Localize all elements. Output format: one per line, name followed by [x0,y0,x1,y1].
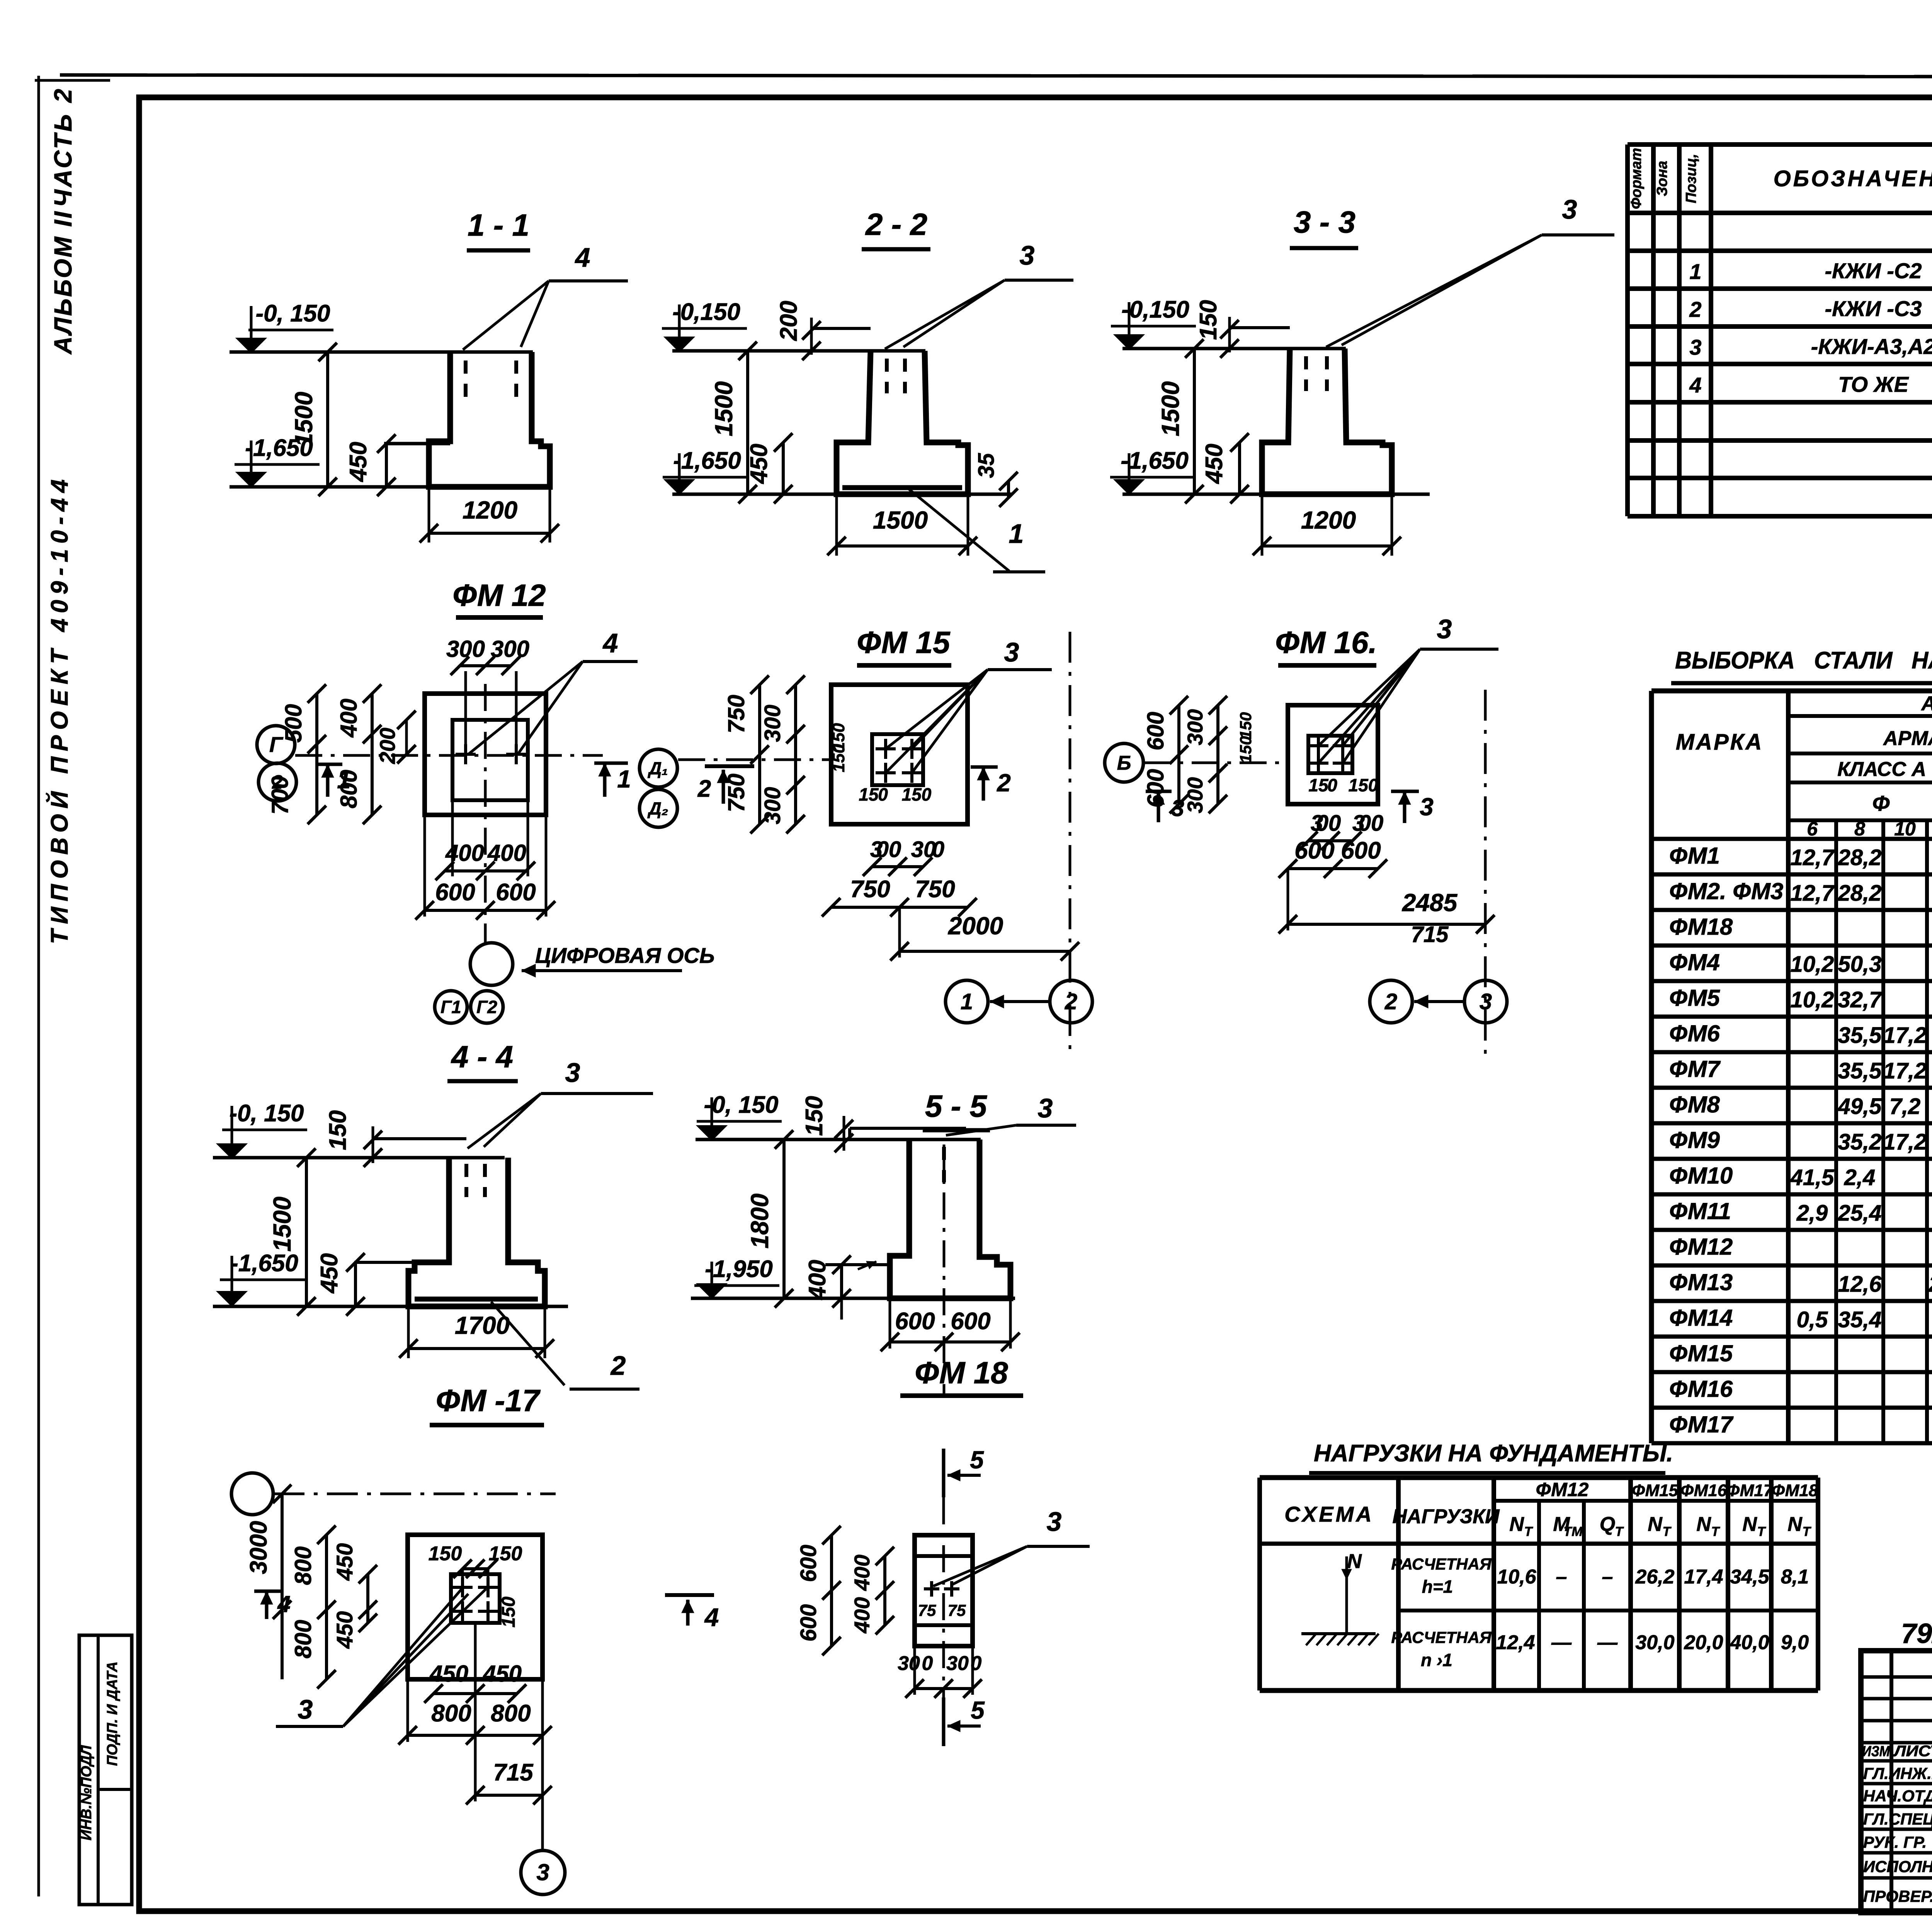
svg-text:ФМ5: ФМ5 [1669,985,1721,1011]
svg-text:1800: 1800 [746,1194,774,1248]
svg-text:ЧАСТЬ 2: ЧАСТЬ 2 [49,87,77,207]
svg-text:150: 150 [325,1110,351,1150]
svg-text:450: 450 [429,1661,468,1687]
svg-text:СХЕМА: СХЕМА [1284,1502,1374,1526]
section 1-1 ground line top [230,350,533,354]
svg-text:Т: Т [1524,1524,1534,1539]
svg-text:Φ: Φ [1872,791,1890,815]
svg-text:–: – [1602,1566,1613,1588]
svg-text:3: 3 [1437,614,1452,644]
svg-text:32,7: 32,7 [1838,987,1883,1012]
svg-text:3: 3 [1004,637,1019,667]
plan ФМ17 circle 3 [521,1850,565,1895]
svg-text:Q: Q [1600,1513,1615,1536]
plan ФМ17 axis circle [231,1473,273,1515]
svg-text:3: 3 [298,1694,313,1725]
svg-text:Б: Б [1117,752,1131,774]
svg-text:НАЧ.ОТД: НАЧ.ОТД [1863,1787,1932,1805]
svg-text:150: 150 [1349,775,1378,795]
svg-text:150: 150 [1236,712,1255,739]
svg-text:-1,650: -1,650 [230,1250,298,1277]
svg-text:17,2: 17,2 [1883,1023,1927,1048]
svg-text:750: 750 [850,876,890,903]
plan ФМ12 dim chain left B [371,694,374,815]
svg-text:3: 3 [1047,1507,1062,1537]
svg-text:2: 2 [1689,297,1701,321]
svg-text:150: 150 [1236,736,1255,763]
plan ФМ15 axis line [678,759,831,761]
svg-text:ФМ18: ФМ18 [1669,914,1733,940]
svg-text:5: 5 [970,1446,984,1474]
plan ФМ17 dim chain 800 left [325,1535,328,1679]
svg-text:ФМ17: ФМ17 [1726,1481,1774,1500]
svg-text:ФМ8: ФМ8 [1669,1092,1720,1117]
svg-text:10,2: 10,2 [1791,987,1834,1012]
svg-text:800: 800 [290,1546,316,1585]
svg-text:9,0: 9,0 [1781,1631,1809,1654]
plan ФМ15 long axis [1069,632,1071,1055]
plan ФМ15 dim chain left 750 [758,685,761,824]
svg-text:n ›1: n ›1 [1421,1650,1452,1670]
svg-text:450: 450 [483,1661,522,1687]
svg-text:0,5: 0,5 [1797,1307,1828,1332]
paper left edge line [37,76,40,1896]
svg-text:20,0: 20,0 [1684,1631,1723,1654]
svg-text:ФМ 15: ФМ 15 [857,625,951,660]
section 1-1 dim 1200 [428,487,430,543]
section 3-3 anchor dashes [1304,356,1308,391]
svg-text:3: 3 [1020,240,1035,270]
svg-text:ТО ЖЕ: ТО ЖЕ [1838,372,1909,396]
svg-text:ЦИФРОВАЯ ОСЬ: ЦИФРОВАЯ ОСЬ [535,943,715,968]
svg-text:150: 150 [1195,300,1222,340]
svg-text:35,5: 35,5 [1838,1023,1882,1048]
plan ФМ12 axis circles Г1 Г2 [435,991,467,1023]
section 5-5 foundation profile [890,1139,1010,1298]
section 2-2 dim 450 [782,442,785,494]
section 5-5 dim 400 [840,1265,843,1298]
svg-text:Т: Т [1663,1524,1672,1539]
svg-text:ФМ18: ФМ18 [1772,1481,1818,1500]
svg-text:ФМ2. ФМ3: ФМ2. ФМ3 [1669,878,1783,904]
plan ФМ16 bottom circles 2 3 [1370,980,1412,1023]
svg-text:–: – [1556,1566,1567,1588]
svg-text:Зона: Зона [1654,161,1670,196]
svg-text:ФМ -17: ФМ -17 [436,1383,541,1418]
section 1-1 foundation profile [429,352,550,487]
section 3-3 dim 1500 [1193,349,1196,494]
svg-text:2: 2 [1384,989,1397,1014]
section 5-5 centerline [943,1145,946,1394]
svg-text:ФМ4: ФМ4 [1669,949,1720,975]
svg-text:0: 0 [922,1652,933,1675]
svg-text:4: 4 [704,1603,719,1631]
svg-text:2 - 2: 2 - 2 [865,207,927,241]
section 2-2 dim 35 [1007,481,1010,498]
svg-text:600: 600 [895,1308,935,1335]
svg-text:3: 3 [565,1058,580,1088]
svg-text:-1,950: -1,950 [705,1256,773,1282]
title block left table grid [1861,1675,1932,1679]
svg-text:0: 0 [932,837,944,862]
svg-text:-0, 150: -0, 150 [704,1092,778,1118]
svg-text:ФМ 12: ФМ 12 [452,578,546,612]
svg-text:-1,650: -1,650 [1121,447,1189,474]
svg-text:N: N [1509,1513,1524,1536]
svg-text:ВЫБОРКА СТАЛИ НА ОДИН Э: ВЫБОРКА СТАЛИ НА ОДИН ЭЛЕМЕНТ, В КГ. [1675,647,1932,674]
svg-text:35,4: 35,4 [1838,1307,1882,1332]
svg-text:КЛАСС А: КЛАСС А [1837,758,1926,781]
svg-text:500: 500 [281,704,306,743]
svg-text:3: 3 [1420,793,1434,821]
plan ФМ18 dim chain 400 left [883,1556,886,1625]
svg-text:0: 0 [878,784,888,804]
svg-text:РУК. ГР.: РУК. ГР. [1863,1833,1927,1851]
svg-text:17,4: 17,4 [1684,1566,1723,1588]
svg-text:10,6: 10,6 [1497,1566,1536,1588]
svg-text:ГЛ.СПЕЦ,: ГЛ.СПЕЦ, [1863,1810,1932,1828]
svg-text:4 - 4: 4 - 4 [451,1039,513,1074]
svg-text:АЛЬБОМ II: АЛЬБОМ II [49,210,77,355]
plan ФМ18 dim chain 600 left [830,1535,833,1646]
plan ФМ12 anchors [456,753,476,756]
section 3-3 dim 450 [1238,442,1241,494]
svg-text:8: 8 [1854,818,1865,840]
svg-text:ПРОВЕР.: ПРОВЕР. [1863,1887,1932,1905]
section 2-2 ground line top [672,349,925,353]
svg-text:400: 400 [850,1554,874,1591]
svg-text:1500: 1500 [710,381,738,436]
section 1-1 anchor dashes [464,361,468,398]
svg-text:12,4: 12,4 [1496,1631,1535,1654]
svg-text:ГЛ.ИНЖ.ПР: ГЛ.ИНЖ.ПР [1863,1764,1932,1782]
svg-text:-0,150: -0,150 [672,299,740,325]
svg-text:5 - 5: 5 - 5 [925,1089,988,1123]
plan ФМ17 anchors [452,1586,473,1589]
section 1-1 dim 450 [385,444,388,487]
svg-text:ФМ12: ФМ12 [1669,1234,1733,1260]
svg-text:Формат: Формат [1628,148,1645,209]
plan ФМ16 axis circle Б [1105,743,1143,782]
plan ФМ15 anchors [876,747,896,750]
svg-text:ФМ16: ФМ16 [1669,1376,1733,1402]
svg-text:-0,150: -0,150 [1121,296,1189,323]
section 2-2 foundation profile [837,351,968,494]
plan ФМ12 axis circles Г [257,726,295,764]
svg-text:450: 450 [316,1253,343,1294]
steel table grid [1651,689,1932,694]
section 3-3 ground line bottom [1122,493,1430,496]
svg-text:НАГРУЗКИ: НАГРУЗКИ [1392,1505,1500,1528]
paper top edge line [60,75,1932,77]
svg-text:28,2: 28,2 [1838,881,1882,906]
plan ФМ12 centerline vertical [484,684,487,943]
svg-text:ФМ 16.: ФМ 16. [1275,625,1377,660]
svg-text:300: 300 [760,705,785,742]
svg-text:2485: 2485 [1402,889,1458,917]
svg-text:АРМАТУРНАЯ СТАЛЬ ГОСТ 5781: АРМАТУРНАЯ СТАЛЬ ГОСТ 5781-75 [1883,727,1932,750]
svg-text:1200: 1200 [463,496,517,524]
svg-text:25,4: 25,4 [1838,1201,1882,1226]
svg-text:ТИПОВОЙ ПРОЕКТ 409-10-44: ТИПОВОЙ ПРОЕКТ 409-10-44 [46,474,73,944]
svg-text:3: 3 [536,1859,549,1885]
plan ФМ18 section mark 5 bottom [942,1697,946,1746]
svg-text:ФМ10: ФМ10 [1669,1163,1733,1189]
plan ФМ16 long axis [1484,690,1487,1055]
svg-text:600: 600 [796,1545,821,1582]
plan ФМ17 inner rect [451,1574,500,1623]
svg-text:1: 1 [337,766,351,794]
plan ФМ17 dim chain 450 left [366,1574,369,1623]
svg-text:1: 1 [961,989,973,1014]
svg-text:-КЖИ -С3: -КЖИ -С3 [1825,296,1922,321]
plan ФМ16 dim chain left 300 [1216,705,1219,804]
svg-text:N: N [1347,1550,1362,1573]
plan ФМ15 axis circles Д1 Д2 [639,749,677,787]
svg-text:Т: Т [1757,1524,1767,1539]
svg-text:600: 600 [1143,712,1168,750]
svg-text:-0, 150: -0, 150 [255,300,330,327]
svg-text:30: 30 [898,1652,920,1675]
svg-text:1: 1 [1689,259,1701,284]
plan ФМ12 outer square [425,694,546,815]
svg-text:1200: 1200 [1301,506,1356,534]
svg-text:4: 4 [602,628,618,658]
plan ФМ12 section mark 1 left [326,764,330,797]
section 3-3 dim 1200 [1261,494,1264,556]
svg-text:2: 2 [610,1350,626,1381]
svg-text:РАСЧЕТНАЯ: РАСЧЕТНАЯ [1391,1555,1492,1573]
svg-text:2: 2 [697,776,711,802]
svg-text:7,2: 7,2 [1889,1094,1921,1119]
svg-text:ФМ13: ФМ13 [1669,1269,1733,1295]
section 2-2 ground line bottom [672,493,1012,496]
svg-text:12,7: 12,7 [1791,845,1835,870]
svg-text:3: 3 [1480,989,1492,1014]
loads table schema drawing [1345,1556,1348,1580]
svg-text:РАСЧЕТНАЯ: РАСЧЕТНАЯ [1391,1628,1492,1646]
svg-text:1 - 1: 1 - 1 [468,208,529,242]
section 2-2 anchor dashes [885,359,889,393]
svg-text:Г2: Г2 [476,997,497,1017]
svg-text:2: 2 [997,769,1011,797]
plan ФМ18 section mark 5 top [942,1449,946,1497]
svg-text:Т: Т [1615,1524,1624,1539]
svg-text:ФМ15: ФМ15 [1632,1481,1679,1500]
svg-text:35: 35 [974,453,999,478]
svg-text:ТМ: ТМ [1563,1524,1583,1539]
svg-text:ФМ15: ФМ15 [1669,1340,1733,1366]
svg-text:3: 3 [1689,335,1701,359]
svg-text:800: 800 [431,1700,471,1727]
svg-text:40,0: 40,0 [1730,1631,1769,1654]
svg-text:ИСПОЛН.: ИСПОЛН. [1863,1857,1932,1876]
svg-text:41,5: 41,5 [1790,1165,1835,1190]
svg-text:75: 75 [918,1601,936,1619]
plan ФМ17 axis to circle 3 [541,1679,544,1851]
plan ФМ16 inner rect [1308,736,1352,773]
section 2-2 dim 1500 [746,351,749,494]
svg-text:450: 450 [345,442,372,482]
svg-text:800: 800 [290,1620,316,1658]
svg-text:600: 600 [496,879,536,906]
svg-text:7922: 7922 [1901,1618,1932,1649]
svg-text:450: 450 [332,1611,357,1649]
svg-text:750: 750 [723,695,749,733]
plan ФМ17 dim 3000 [281,1494,284,1679]
svg-text:300: 300 [1183,777,1207,813]
svg-text:Т: Т [1803,1524,1812,1539]
svg-text:150: 150 [829,744,848,772]
svg-text:ФМ11: ФМ11 [1669,1198,1731,1224]
svg-text:00: 00 [1359,811,1384,836]
svg-text:715: 715 [493,1759,534,1786]
svg-text:1: 1 [1009,519,1024,549]
plan ФМ12 axis line horizontal [295,754,603,757]
svg-text:400: 400 [445,840,484,866]
svg-text:30,0: 30,0 [1635,1631,1674,1654]
svg-text:800: 800 [491,1700,531,1727]
section 4-4 foundation profile [408,1158,545,1306]
svg-text:8,1: 8,1 [1781,1566,1809,1588]
svg-text:3: 3 [1038,1093,1053,1123]
svg-text:49,5: 49,5 [1838,1094,1882,1119]
svg-text:600: 600 [1294,837,1334,864]
section 4-4 ground line bottom [213,1305,568,1308]
svg-text:10: 10 [1894,818,1916,840]
svg-text:1500: 1500 [290,392,318,447]
svg-text:3: 3 [1562,194,1577,224]
svg-text:Д₂: Д₂ [647,798,668,818]
section 4-4 ground line top [213,1156,505,1160]
svg-text:Д₁: Д₁ [647,758,668,778]
section 5-5 ground line bottom [691,1297,1015,1300]
section 2-2 dim 1500 bottom [835,494,838,556]
svg-text:0: 0 [1327,775,1337,795]
section 5-5 anchor dash [942,1147,946,1182]
section 5-5 dim 1800 [782,1139,786,1298]
svg-text:4: 4 [277,1591,290,1617]
svg-text:Т: Т [1711,1524,1721,1539]
svg-text:N: N [1696,1513,1711,1536]
svg-text:12,7: 12,7 [1791,881,1835,906]
svg-text:200: 200 [375,728,400,764]
svg-text:17,2: 17,2 [1883,1058,1927,1083]
svg-text:h=1: h=1 [1422,1577,1453,1597]
svg-text:12,6: 12,6 [1838,1272,1882,1297]
svg-text:-1,650: -1,650 [673,447,741,474]
svg-text:400: 400 [336,699,362,738]
section 4-4 leader 2 [491,1302,565,1385]
svg-text:ОБОЗНАЧЕНИЕ: ОБОЗНАЧЕНИЕ [1774,166,1932,191]
svg-text:ФМ7: ФМ7 [1669,1056,1721,1082]
svg-text:-КЖИ -С2: -КЖИ -С2 [1825,259,1922,283]
svg-text:400: 400 [804,1260,831,1300]
plan ФМ15 bottom circles 1 2 [946,980,988,1023]
section 2-2 mesh line [842,485,962,490]
svg-text:—: — [1597,1631,1618,1654]
svg-text:600: 600 [435,879,475,906]
section 4-4 dim 1700 [407,1306,410,1358]
svg-text:1: 1 [617,765,631,793]
svg-text:300: 300 [491,636,529,662]
svg-text:ИНВ.№ПОДЛ: ИНВ.№ПОДЛ [78,1745,95,1840]
svg-text:15: 15 [1308,775,1329,795]
title block outer [1861,1651,1932,1913]
svg-text:-КЖИ-А3,А2: -КЖИ-А3,А2 [1811,334,1932,359]
svg-text:450: 450 [746,444,772,484]
plan ФМ16 outer rect [1288,705,1378,804]
plan ФМ16 dim chain left 600 [1177,705,1180,804]
plan ФМ12 dim chain left A [315,694,318,815]
svg-text:N: N [1742,1513,1757,1536]
svg-text:35,2: 35,2 [1838,1129,1882,1155]
svg-text:Г1: Г1 [440,997,461,1017]
plan ФМ12 section mark 1 right [603,763,607,797]
svg-text:450: 450 [332,1543,357,1581]
svg-text:4: 4 [1689,373,1701,397]
svg-text:ФМ9: ФМ9 [1669,1127,1720,1153]
svg-text:ФМ16: ФМ16 [1680,1481,1727,1500]
plan ФМ12 цифровая ось circle [470,943,513,985]
section 3-3 ground line top [1122,347,1346,350]
section 1-1 dim 1500 [326,352,329,487]
svg-text:150: 150 [801,1096,828,1136]
svg-text:26,2: 26,2 [1635,1566,1674,1588]
svg-text:34,5: 34,5 [1730,1566,1769,1588]
svg-text:-0, 150: -0, 150 [229,1100,304,1127]
section 3-3 foundation profile [1262,349,1392,494]
svg-text:600: 600 [796,1604,821,1642]
svg-text:1500: 1500 [873,506,928,534]
svg-text:5: 5 [971,1696,985,1724]
svg-text:400: 400 [850,1597,874,1633]
svg-text:17,2: 17,2 [1883,1129,1927,1155]
section 4-4 mesh line [415,1297,538,1302]
svg-text:150: 150 [429,1543,462,1565]
svg-text:450: 450 [1201,444,1228,484]
section 2-2 leader 1 [908,488,1009,571]
svg-text:700: 700 [267,776,293,815]
svg-text:ФМ1: ФМ1 [1669,843,1720,869]
svg-text:6: 6 [1807,818,1818,840]
plan ФМ15 section mark 2 right [982,767,985,801]
svg-text:35,5: 35,5 [1838,1058,1882,1083]
svg-text:300: 300 [1183,709,1207,745]
svg-text:1500: 1500 [1156,381,1184,436]
svg-text:10,2: 10,2 [1791,952,1834,977]
svg-text:75: 75 [948,1601,966,1619]
svg-text:200: 200 [776,301,802,341]
spec table grid [1628,142,1932,147]
plan ФМ15 inner rect [872,734,923,785]
svg-text:—: — [1551,1631,1572,1654]
svg-text:МАРКА: МАРКА [1676,730,1763,755]
svg-text:600: 600 [1341,837,1381,864]
svg-text:4: 4 [575,242,590,272]
svg-text:2,9: 2,9 [1796,1201,1828,1226]
svg-text:Позиц,: Позиц, [1683,154,1699,203]
svg-text:3000: 3000 [245,1521,272,1574]
svg-text:27,5: 27,5 [1929,1272,1932,1297]
svg-text:НАГРУЗКИ НА ФУНДАМЕНТЫ.: НАГРУЗКИ НА ФУНДАМЕНТЫ. [1314,1440,1673,1467]
plan ФМ15 dim chain left 300 [794,685,797,824]
svg-text:600: 600 [951,1308,990,1335]
svg-text:750: 750 [915,876,955,903]
svg-text:N: N [1648,1513,1663,1536]
svg-text:ПОДП. И ДАТА: ПОДП. И ДАТА [104,1662,121,1766]
svg-text:3: 3 [1171,795,1184,821]
